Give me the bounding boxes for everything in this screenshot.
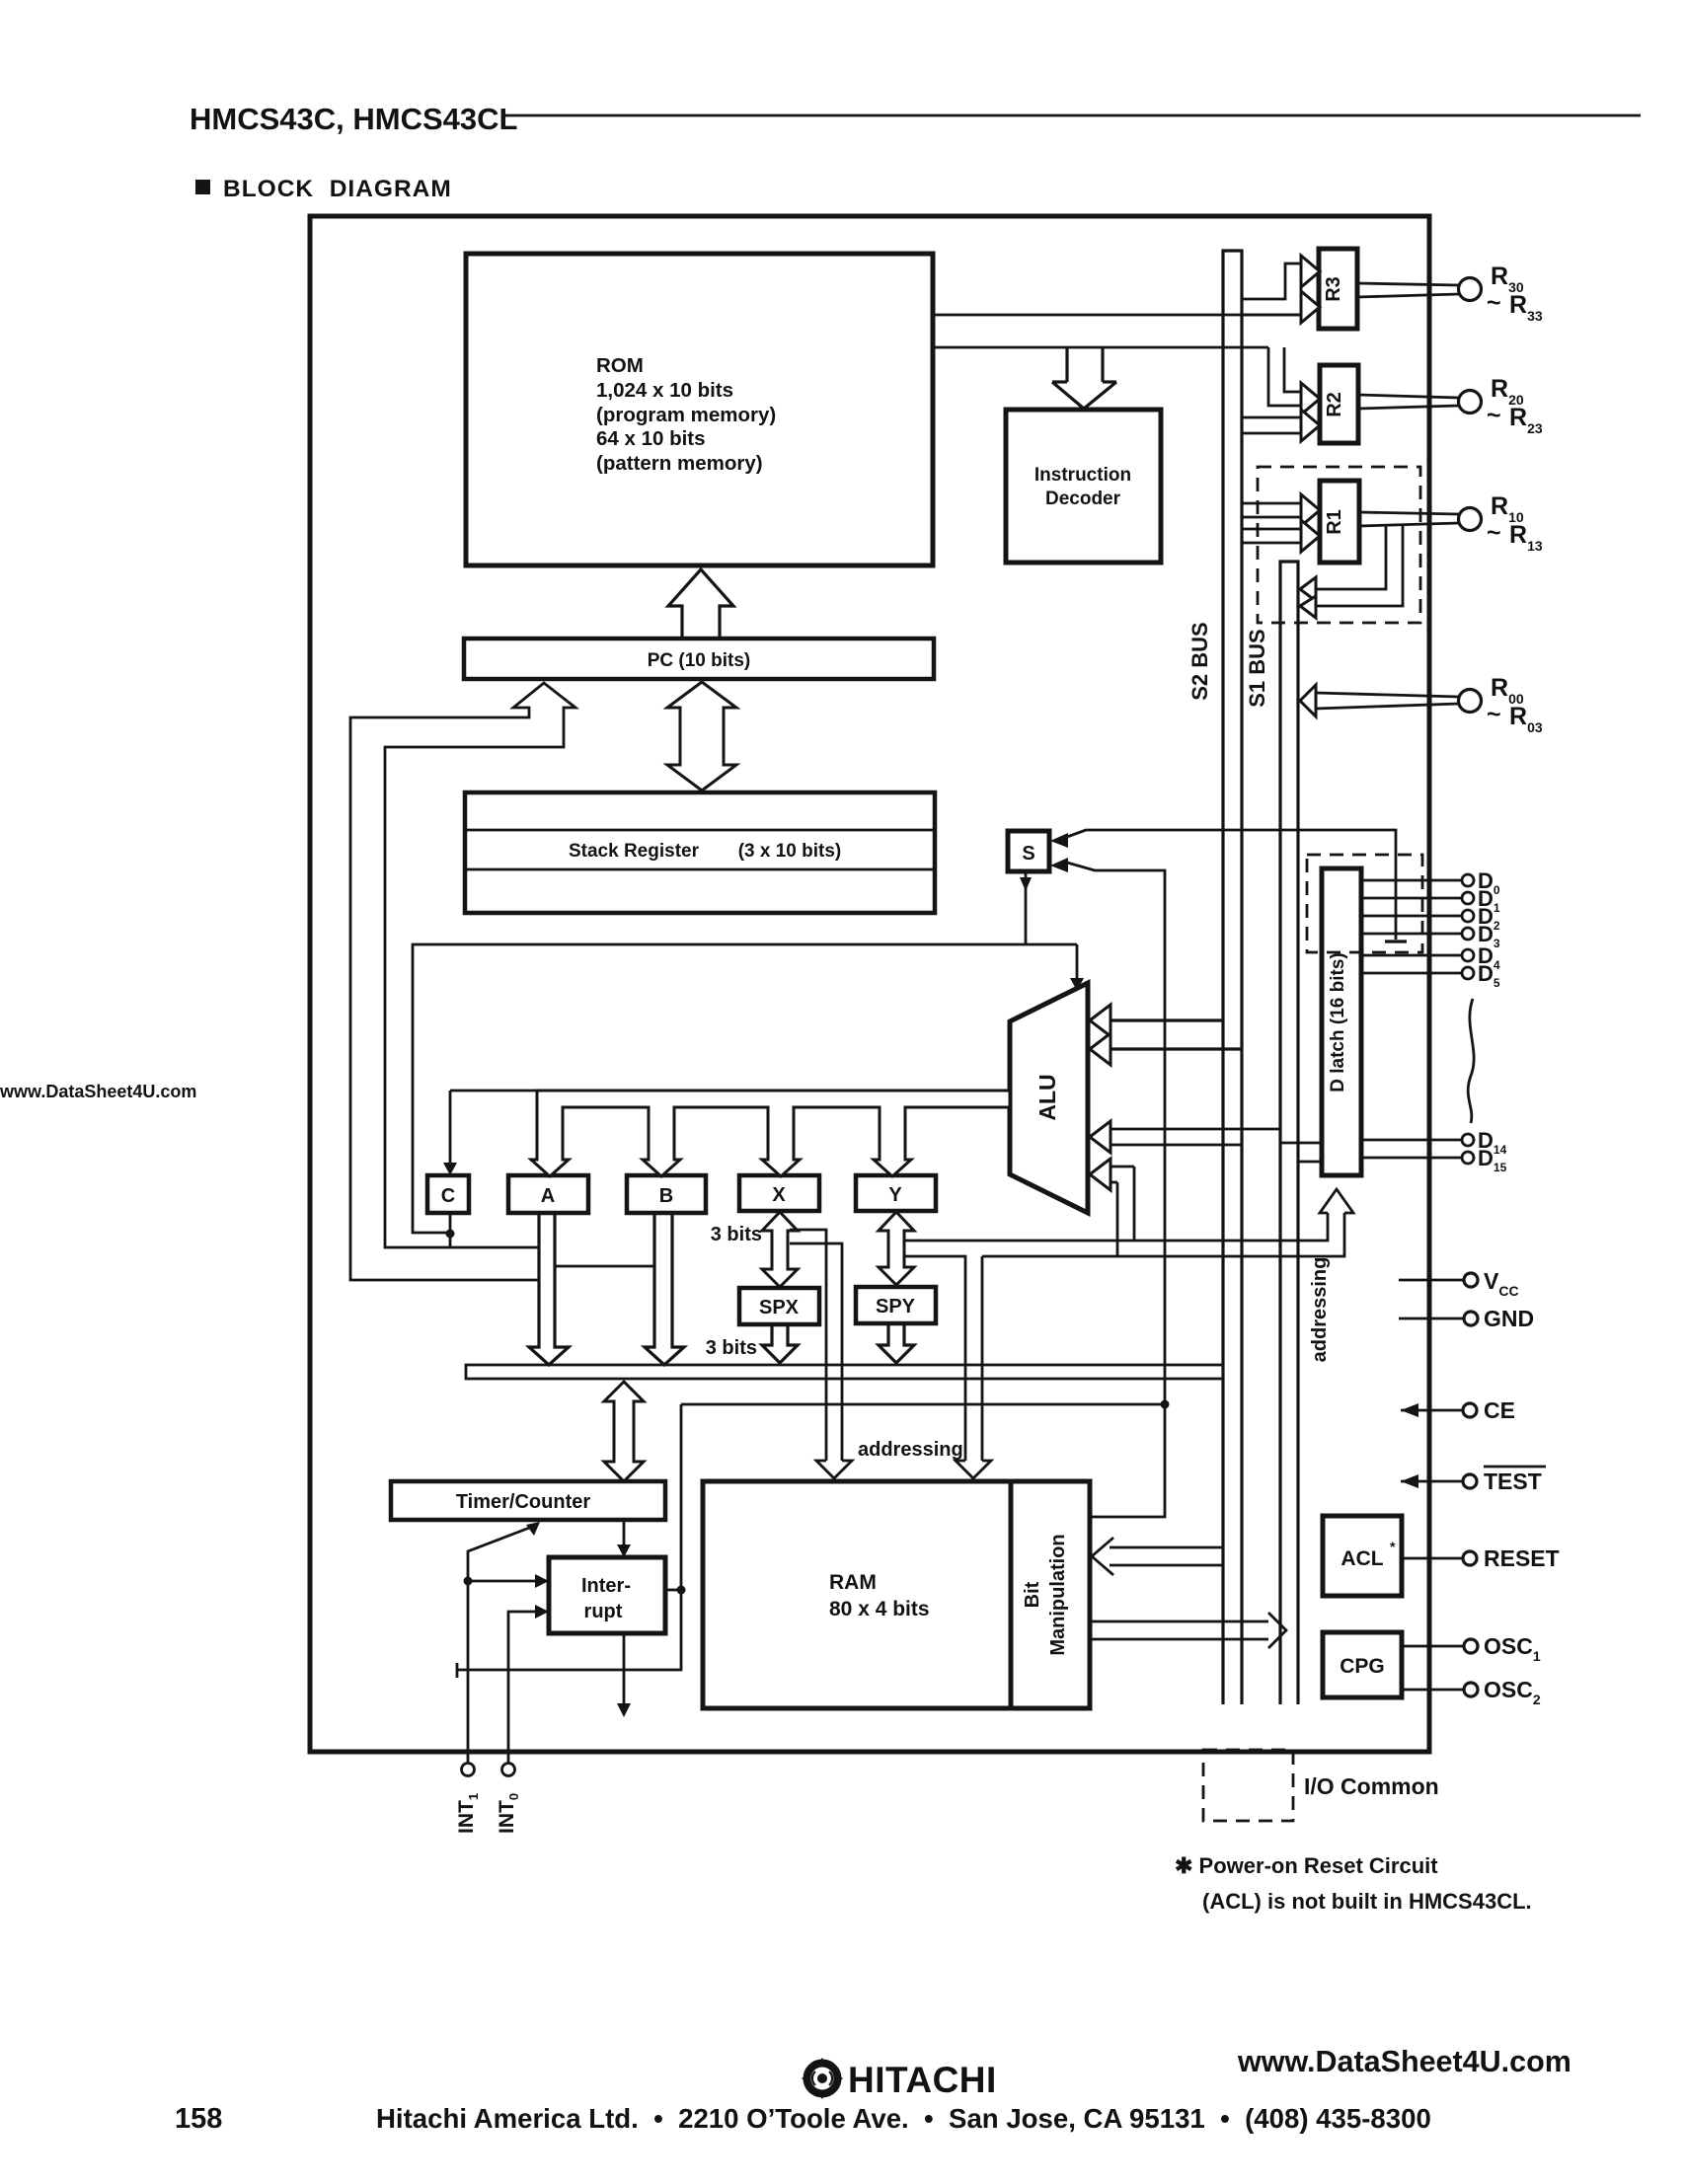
svg-text:S: S — [1022, 843, 1034, 865]
INT0 pin — [496, 1764, 521, 1835]
R0 pad input lines with arrow into S1 bus — [1300, 685, 1459, 716]
svg-text:RAM: RAM — [829, 1571, 877, 1594]
OSC2 pin — [1402, 1677, 1541, 1707]
fat arrow PC to ROM — [668, 569, 733, 638]
section title BLOCK DIAGRAM — [195, 176, 452, 202]
svg-text:Y: Y — [888, 1184, 902, 1206]
OSC1 pin — [1402, 1633, 1541, 1664]
svg-text:HITACHI: HITACHI — [848, 2060, 997, 2100]
svg-text:(3 x 10 bits): (3 x 10 bits) — [738, 841, 842, 862]
D14 pin — [1361, 1128, 1507, 1157]
wire channel drop into C — [443, 1091, 457, 1175]
svg-text:BLOCK DIAGRAM: BLOCK DIAGRAM — [223, 176, 452, 202]
B output channel to bus bar — [645, 1213, 684, 1365]
Timer/Counter block — [391, 1481, 665, 1520]
wire Interrupt output loop — [457, 1404, 1166, 1678]
svg-text:~: ~ — [1487, 289, 1501, 317]
fat arrow into instruction decoder — [1052, 348, 1116, 409]
svg-text:1,024 x 10 bits: 1,024 x 10 bits — [596, 379, 733, 402]
Instruction Decoder block U2 — [1006, 410, 1161, 563]
footer watermark www.DataSheet4U.com — [1237, 2045, 1571, 2078]
svg-text:R1: R1 — [1324, 509, 1345, 535]
RAM block — [703, 1481, 1011, 1708]
R1 input arrow upper from S2 bus — [1242, 494, 1320, 526]
dashed I/O common box around R1 — [1258, 467, 1420, 623]
header rule line — [501, 114, 1641, 117]
svg-text:S1 BUS: S1 BUS — [1245, 629, 1269, 707]
R3 input arrow lower from ROM — [1301, 291, 1320, 323]
wire ALU output to left rail — [413, 944, 1077, 1239]
svg-text:TEST: TEST — [1484, 1469, 1542, 1494]
svg-text:(pattern memory): (pattern memory) — [596, 452, 763, 475]
D1 pin — [1361, 886, 1500, 915]
wire into S register lower (from bit manipulation line) — [1050, 858, 1170, 1517]
svg-text:CPG: CPG — [1340, 1655, 1385, 1678]
output register R3 — [1319, 249, 1357, 329]
Bit Manipulation block — [1011, 1481, 1090, 1708]
A output channel to bus bar — [529, 1213, 569, 1365]
arrow SPX to bus bar — [762, 1325, 798, 1363]
S status register — [1008, 831, 1049, 871]
pad R10-R13 — [1459, 492, 1543, 554]
fat double arrow X to SPX — [762, 1212, 798, 1287]
internal data bus bar — [466, 1365, 1223, 1379]
footer address line — [376, 2103, 1431, 2134]
watermark left www.DataSheet4U.com — [0, 1082, 196, 1101]
svg-text:INT1: INT1 — [455, 1793, 481, 1834]
D latch to S1 bus lines — [1280, 1143, 1322, 1162]
pad R20-R23 — [1459, 375, 1543, 436]
ALU block — [1010, 983, 1088, 1213]
svg-text:3 bits: 3 bits — [711, 1224, 762, 1245]
R1 feedback wires into S1 bus — [1300, 526, 1403, 618]
ellipsis squiggle between D5 and D14 — [1468, 999, 1474, 1123]
svg-text:CE: CE — [1484, 1397, 1515, 1423]
svg-text:www.DataSheet4U.com: www.DataSheet4U.com — [1237, 2045, 1571, 2078]
svg-text:VCC: VCC — [1484, 1268, 1519, 1299]
CE pin — [1401, 1397, 1515, 1423]
svg-text:R13: R13 — [1509, 521, 1543, 554]
svg-text:D latch (16 bits): D latch (16 bits) — [1328, 952, 1348, 1092]
svg-text:I/O Common: I/O Common — [1304, 1773, 1439, 1799]
D4 pin — [1361, 943, 1500, 972]
svg-text:(program memory): (program memory) — [596, 404, 776, 426]
svg-text:OSC1: OSC1 — [1484, 1633, 1541, 1664]
S2 BUS vertical pair — [1187, 251, 1242, 1704]
ROM block — [466, 254, 933, 565]
wire ALU output into ALU top — [1070, 944, 1084, 991]
S1 BUS vertical pair — [1245, 562, 1298, 1704]
R2 input arrow lower from S2 bus — [1242, 410, 1320, 441]
svg-text:PC (10 bits): PC (10 bits) — [648, 650, 751, 671]
register SPX — [739, 1288, 819, 1324]
pad R30-R33 — [1459, 263, 1543, 324]
svg-text:Hitachi America Ltd. • 2210: Hitachi America Ltd. • 2210 O’Toole Ave.… — [376, 2103, 1431, 2134]
svg-text:ROM: ROM — [596, 354, 644, 377]
svg-text:Inter-: Inter- — [581, 1575, 631, 1597]
INT1 pin — [455, 1764, 481, 1835]
svg-text:GND: GND — [1484, 1306, 1534, 1331]
ACL block — [1323, 1516, 1402, 1596]
D0 pin — [1361, 868, 1500, 897]
register Y — [856, 1175, 936, 1211]
svg-text:Bit: Bit — [1022, 1581, 1043, 1608]
D2 pin — [1361, 904, 1500, 933]
label 3 bits lower — [706, 1337, 757, 1359]
output register R2 — [1320, 365, 1358, 443]
D5 pin — [1361, 961, 1500, 990]
wire INT0 input — [508, 1605, 549, 1763]
svg-text:*: * — [1390, 1539, 1396, 1554]
register SPY — [856, 1287, 936, 1323]
D3 pin — [1361, 922, 1500, 950]
I/O register R1 — [1320, 481, 1359, 563]
svg-text:A: A — [541, 1185, 555, 1207]
wire into S register upper (from D latch common) — [1050, 830, 1407, 941]
register B — [627, 1175, 706, 1213]
svg-text:158: 158 — [175, 2103, 222, 2135]
svg-text:SPY: SPY — [876, 1296, 916, 1318]
I/O Common legend dashed box — [1203, 1750, 1439, 1821]
pad R00-R03 — [1459, 674, 1543, 735]
wire C output down to rail — [449, 1213, 452, 1247]
svg-text:S2 BUS: S2 BUS — [1187, 622, 1212, 700]
RESET pin — [1402, 1545, 1560, 1571]
R1 output lines to pad — [1359, 512, 1459, 526]
svg-text:X: X — [772, 1184, 786, 1206]
wire INT1 input — [464, 1522, 550, 1763]
svg-text:Stack Register: Stack Register — [569, 841, 700, 862]
svg-text:Manipulation: Manipulation — [1047, 1534, 1069, 1655]
D15 pin — [1361, 1146, 1507, 1174]
R3 output lines to pad — [1357, 283, 1459, 297]
register distribution channel from ALU to C A B X Y — [450, 1091, 1010, 1176]
svg-text:B: B — [659, 1185, 673, 1207]
wire bridge A to B channels — [555, 1265, 654, 1268]
fat arrow bus bar to Timer/Counter — [604, 1382, 644, 1481]
R3 input arrow upper from S2 bus — [1242, 256, 1320, 315]
PC register bar — [464, 639, 934, 679]
svg-text:3 bits: 3 bits — [706, 1337, 757, 1359]
fat double arrow PC to Stack Register — [667, 682, 736, 791]
X addressing branch down to RAM — [790, 1230, 852, 1478]
svg-text:~: ~ — [1487, 402, 1501, 429]
Y addressing branch down to RAM — [904, 1256, 991, 1478]
Hitachi logo mark — [802, 2058, 843, 2099]
wire ROM to R3 (line1) — [933, 314, 1301, 317]
outer chip boundary box — [310, 216, 1429, 1752]
svg-text:RESET: RESET — [1484, 1545, 1560, 1571]
R2 output lines to pad — [1358, 395, 1459, 409]
TEST pin with overline — [1401, 1467, 1546, 1494]
svg-text:rupt: rupt — [584, 1601, 623, 1622]
svg-text:R2: R2 — [1324, 392, 1345, 417]
ALU input arrow 1 from S2 bus — [1090, 1005, 1223, 1036]
CPG block — [1323, 1632, 1402, 1697]
svg-text:80 x 4 bits: 80 x 4 bits — [829, 1598, 930, 1620]
wire S register to ALU output rail — [1020, 871, 1032, 944]
svg-text:www.DataSheet4U.com: www.DataSheet4U.com — [0, 1082, 196, 1101]
svg-text:addressing: addressing — [858, 1439, 963, 1461]
svg-text:R23: R23 — [1509, 404, 1543, 436]
ALU input arrow 4 from addressing channel — [1090, 1159, 1134, 1190]
arrow SPY to bus bar — [879, 1324, 914, 1363]
footnote power-on reset — [1175, 1853, 1532, 1914]
register C — [427, 1175, 469, 1213]
PC feedback channel with arrow into PC — [350, 683, 575, 1280]
label addressing vertical — [1309, 1257, 1331, 1363]
fat double arrow Y to SPY — [879, 1212, 914, 1285]
svg-text:ACL: ACL — [1340, 1547, 1383, 1570]
R1 input arrow lower from S2 bus — [1242, 520, 1320, 552]
page title HMCS43C, HMCS43CL — [190, 102, 517, 136]
svg-text:~: ~ — [1487, 701, 1501, 728]
svg-text:Instruction: Instruction — [1034, 465, 1131, 486]
svg-text:SPX: SPX — [759, 1297, 800, 1318]
ALU input arrow 3 from S1 bus — [1090, 1121, 1280, 1153]
GND pin — [1399, 1306, 1534, 1331]
fat arrow S-buses into Bit Manipulation — [1092, 1538, 1224, 1575]
svg-text:R3: R3 — [1323, 276, 1344, 302]
svg-text:R03: R03 — [1509, 703, 1543, 735]
svg-text:ALU: ALU — [1034, 1074, 1060, 1120]
register A — [508, 1175, 588, 1213]
label 3 bits upper — [711, 1224, 762, 1245]
wire ROM to instruction decoder / R2 (line2) — [933, 346, 1268, 349]
svg-text:HMCS43C, HMCS43CL: HMCS43C, HMCS43CL — [190, 102, 517, 136]
label addressing horizontal — [858, 1439, 963, 1461]
VCC pin — [1399, 1268, 1519, 1299]
svg-text:C: C — [441, 1185, 455, 1207]
R2 input arrow upper from ROM line2 — [1268, 347, 1320, 414]
page number 158 — [175, 2103, 222, 2135]
wire Interrupt down output — [617, 1633, 631, 1717]
svg-text:Timer/Counter: Timer/Counter — [456, 1491, 591, 1513]
dashed I/O common box around D latch top — [1307, 855, 1422, 952]
D latch block — [1322, 868, 1361, 1175]
Stack Register block — [465, 792, 935, 913]
Hitachi logo text — [848, 2060, 997, 2100]
svg-text:addressing: addressing — [1309, 1257, 1331, 1363]
svg-text:~: ~ — [1487, 519, 1501, 547]
svg-text:R33: R33 — [1509, 291, 1543, 324]
fat arrow Bit Manipulation to S1 bus — [1090, 1613, 1286, 1648]
svg-text:OSC2: OSC2 — [1484, 1677, 1541, 1707]
svg-text:✱ Power-on Reset Circuit: ✱ Power-on Reset Circuit — [1175, 1853, 1438, 1878]
register X — [739, 1175, 819, 1211]
Interrupt block — [549, 1557, 665, 1633]
ALU input arrow 2 from S2 bus — [1090, 1033, 1242, 1065]
svg-text:INT0: INT0 — [496, 1793, 521, 1834]
svg-text:64 x 10 bits: 64 x 10 bits — [596, 427, 706, 450]
svg-text:Decoder: Decoder — [1045, 489, 1121, 509]
svg-text:(ACL) is not built in HMCS43CL: (ACL) is not built in HMCS43CL. — [1202, 1889, 1532, 1914]
addressing channel to D latch and ALU — [904, 1167, 1353, 1256]
wire Timer to Interrupt — [617, 1520, 631, 1557]
